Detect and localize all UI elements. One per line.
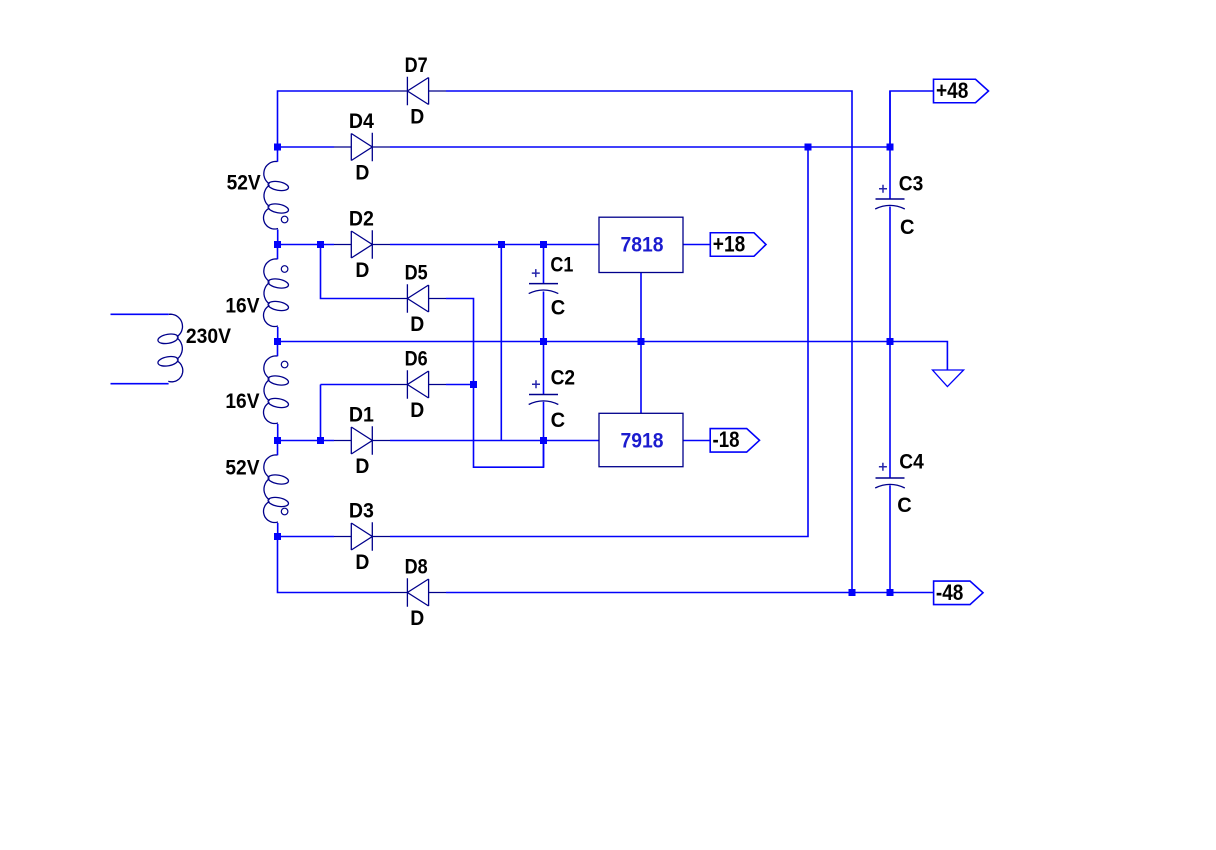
wire C4 stubs	[889, 342, 891, 593]
label D1	[349, 403, 374, 427]
svg-text:D7: D7	[405, 53, 428, 77]
label 16V upper	[225, 294, 260, 318]
diode D2	[334, 230, 390, 259]
node C2 bottom / 7918 input	[540, 437, 547, 444]
net flag +18	[710, 232, 766, 257]
wire from transformer top to D7 row and right vertical down to -48 node	[278, 91, 853, 593]
node D2 anode / D5 branch	[317, 241, 324, 248]
wire D4 row (+48 rail)	[278, 146, 891, 148]
node C1 top / 7818 input	[540, 241, 547, 248]
svg-text:7818: 7818	[621, 232, 664, 256]
net flag -48	[934, 580, 983, 605]
regulator U2 7918	[599, 413, 683, 466]
label D2 value D	[355, 258, 369, 282]
ground	[933, 370, 964, 387]
svg-text:D1: D1	[349, 403, 374, 427]
node transformer tap D2 row	[274, 241, 281, 248]
svg-text:D: D	[410, 398, 424, 422]
svg-text:D: D	[355, 258, 369, 282]
node D1 anode / D6 branch	[317, 437, 324, 444]
svg-text:D8: D8	[405, 555, 428, 579]
diode D7	[390, 77, 446, 106]
wire 7818 output to +18 flag	[683, 244, 710, 246]
svg-text:C: C	[897, 493, 912, 517]
diode D5	[390, 284, 446, 313]
diode D1	[334, 426, 390, 455]
net flag -18	[710, 427, 759, 452]
svg-text:C4: C4	[899, 450, 924, 474]
node C1 bottom / C2 top ground	[540, 338, 547, 345]
label D3 value D	[355, 550, 369, 574]
node +48 rail / C3 top	[887, 144, 894, 151]
node transformer bottom / D3 row	[274, 533, 281, 540]
label D4	[349, 109, 374, 133]
wire C2 stubs	[543, 342, 545, 468]
node D6 anode junction	[470, 381, 477, 388]
svg-text:+48: +48	[936, 78, 968, 103]
node D4 output rail at x808	[805, 144, 812, 151]
node D2 output / vertical	[498, 241, 505, 248]
wire D5 branch and detour to 7918 input node	[321, 245, 544, 468]
wire C3 stubs	[889, 91, 891, 342]
wire D6 branch	[321, 385, 474, 441]
svg-text:C: C	[551, 295, 566, 319]
svg-text:C1: C1	[550, 253, 573, 277]
svg-text:16V: 16V	[225, 294, 260, 318]
node -48 rail / C4 bottom	[887, 589, 894, 596]
svg-text:C2: C2	[551, 366, 576, 390]
svg-text:16V: 16V	[225, 389, 260, 413]
wire D8 row (-48 rail)	[278, 537, 934, 593]
node regulators common ground	[638, 338, 645, 345]
label D7 value D	[410, 104, 424, 128]
label C2 value C	[551, 408, 566, 432]
label 16V lower	[225, 389, 260, 413]
transformer secondary winding 16V upper	[264, 245, 290, 342]
svg-text:C: C	[900, 215, 915, 239]
svg-text:52V: 52V	[225, 456, 260, 480]
transformer secondary winding 16V lower	[264, 342, 290, 441]
wire 7818/7918 common pin to ground row	[640, 273, 642, 414]
wire ground row	[278, 342, 948, 371]
capacitor C2	[529, 380, 559, 404]
wire vertical from D2 output node down to D1 row	[500, 245, 502, 441]
label 52V bottom	[225, 456, 260, 480]
svg-text:D3: D3	[349, 499, 374, 523]
label D6	[405, 347, 428, 371]
label C3 value C	[900, 215, 915, 239]
svg-text:7918: 7918	[621, 428, 664, 452]
svg-text:D: D	[355, 160, 369, 184]
label D5	[405, 261, 428, 285]
label D8	[405, 555, 428, 579]
svg-text:D: D	[410, 312, 424, 336]
svg-text:-18: -18	[713, 427, 740, 452]
label D4 value D	[355, 160, 369, 184]
diode D4	[334, 133, 390, 162]
wire D2 row (+18 unregulated rail)	[278, 244, 600, 246]
node transformer top / D4 row	[274, 144, 281, 151]
node transformer center tap ground	[274, 338, 281, 345]
svg-text:230V: 230V	[186, 324, 232, 348]
svg-text:D2: D2	[349, 207, 374, 231]
label D1 value D	[355, 454, 369, 478]
label C2	[551, 366, 576, 390]
wire 7918 output to -18 flag	[683, 440, 710, 442]
svg-text:D5: D5	[405, 261, 428, 285]
wire D1 row (7918 input rail)	[278, 440, 600, 442]
transformer primary winding 230V	[111, 314, 183, 384]
diode D6	[390, 370, 446, 399]
label C4 value C	[897, 493, 912, 517]
label C1 value C	[551, 295, 566, 319]
label D8 value D	[410, 606, 424, 630]
regulator U1 7818	[599, 217, 683, 272]
svg-text:52V: 52V	[227, 170, 262, 194]
label D2	[349, 207, 374, 231]
label C4	[899, 450, 924, 474]
svg-text:-48: -48	[936, 580, 964, 605]
wire C1 stubs	[543, 245, 545, 342]
svg-text:C3: C3	[899, 172, 924, 196]
net flag +48	[934, 78, 989, 103]
capacitor C4	[875, 463, 905, 488]
transformer secondary winding 52V top	[264, 147, 290, 245]
label C1	[550, 253, 573, 277]
label D3	[349, 499, 374, 523]
capacitor C3	[875, 185, 905, 209]
label 230V	[186, 324, 232, 348]
label D7	[405, 53, 428, 77]
svg-text:D: D	[355, 454, 369, 478]
svg-text:C: C	[551, 408, 566, 432]
transformer secondary winding 52V bottom	[264, 441, 290, 537]
capacitor C1	[529, 269, 559, 294]
node -48 rail at x852	[849, 589, 856, 596]
label D5 value D	[410, 312, 424, 336]
node C3 bottom / C4 top ground	[887, 338, 894, 345]
svg-text:D: D	[410, 104, 424, 128]
diode D8	[390, 578, 446, 607]
svg-text:D: D	[355, 550, 369, 574]
label D6 value D	[410, 398, 424, 422]
svg-text:D6: D6	[405, 347, 428, 371]
diode D3	[334, 522, 390, 551]
svg-text:+18: +18	[713, 232, 745, 257]
svg-text:D: D	[410, 606, 424, 630]
wire +48 flag riser	[890, 91, 934, 147]
label 52V top	[227, 170, 262, 194]
svg-text:D4: D4	[349, 109, 374, 133]
wire D3 row up to +48 rail	[278, 147, 809, 537]
node transformer tap D1 row	[274, 437, 281, 444]
label C3	[899, 172, 924, 196]
